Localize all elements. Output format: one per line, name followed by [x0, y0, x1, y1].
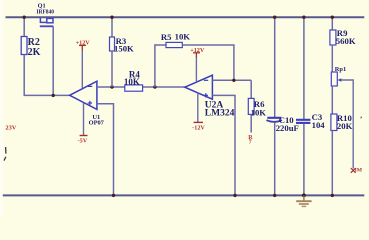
junction R10 ground rail — [331, 194, 334, 197]
junction C3 ground rail — [302, 194, 306, 198]
svg-text:220uF: 220uF — [276, 123, 299, 133]
wire wiper — [341, 80, 353, 169]
junction C3 top rail — [302, 16, 305, 19]
wire U1 inverting row to U2A output — [97, 86, 185, 88]
resistor R9 — [331, 17, 333, 30]
resistor R5 with loop wires — [155, 45, 166, 87]
junction R9 top rail — [331, 16, 334, 19]
wire U2A inverting stub to R6 corner — [212, 79, 251, 81]
wire U2A non-inverting to ground rail — [212, 95, 235, 195]
power +12V (U1) — [76, 39, 91, 50]
wire U1 output row — [24, 94, 70, 96]
ground symbol — [296, 195, 311, 206]
wire U1 V+ from +12V — [81, 50, 83, 88]
wire top rail — [6, 16, 365, 18]
power +12V (U2A) — [190, 47, 205, 58]
junction C10 top rail — [273, 16, 276, 19]
wire U2A V- down — [197, 93, 199, 123]
svg-text:LM324: LM324 — [205, 108, 235, 118]
junction R3 top rail — [110, 16, 113, 19]
resistor R4 — [125, 85, 143, 91]
svg-text:-12V: -12V — [192, 124, 205, 131]
junction feedback node — [232, 79, 235, 82]
svg-text:,: , — [360, 111, 362, 119]
svg-text:IRF840: IRF840 — [36, 8, 54, 15]
resistor R3 — [111, 17, 113, 37]
svg-text:OP07: OP07 — [89, 120, 105, 127]
wire bottom ground rail — [3, 194, 365, 196]
power -12V — [192, 122, 205, 131]
op-amp U2A LM324 — [185, 75, 213, 99]
svg-text:7: 7 — [249, 140, 252, 146]
capacitor C10 220uF — [274, 17, 276, 117]
svg-text:150K: 150K — [114, 44, 134, 54]
svg-text:2K: 2K — [28, 47, 41, 58]
junction C10 ground rail — [273, 194, 276, 197]
svg-text:560K: 560K — [336, 36, 356, 46]
junction R3/inverting row — [110, 85, 113, 88]
resistor R6 — [250, 80, 252, 98]
wire Q1 gate down to U1 output node — [52, 26, 54, 95]
junction gate/output — [52, 94, 55, 97]
wire R9 to Rp1 — [331, 45, 333, 72]
junction R2 top rail — [23, 16, 26, 19]
transistor Q1 IRF840 — [40, 18, 54, 27]
power -5V — [78, 136, 88, 145]
net label (red) below R6 — [248, 135, 253, 146]
wiper arrow — [338, 78, 342, 82]
wire U1 non-inverting to ground rail — [97, 104, 114, 196]
wire U2A V+ from +12V — [195, 57, 197, 82]
svg-text:23V: 23V — [5, 125, 16, 132]
svg-text:IM: IM — [355, 168, 363, 174]
svg-text:10K: 10K — [251, 108, 267, 118]
stray mark left comma — [4, 157, 6, 161]
junction R5/inverting row — [153, 85, 156, 88]
capacitor C3 104 — [303, 17, 305, 119]
svg-text:-5V: -5V — [78, 138, 88, 145]
svg-text:104: 104 — [312, 120, 326, 130]
potentiometer Rp1 — [331, 72, 337, 86]
junction U2A+ ground rail — [233, 194, 236, 197]
svg-text:10K: 10K — [124, 77, 140, 87]
wire Rp1 to R10 — [331, 86, 333, 114]
stray mark left tick — [5, 147, 7, 154]
resistor R10 — [331, 114, 337, 131]
junction U1+ ground rail — [112, 194, 115, 197]
svg-text:10K: 10K — [175, 31, 191, 41]
svg-text:R5: R5 — [161, 32, 172, 42]
svg-text:20K: 20K — [337, 121, 353, 131]
op-amp U1 OP07 — [70, 81, 97, 109]
svg-text:Rp1: Rp1 — [335, 66, 346, 73]
no-ERC marker (red X) — [351, 168, 356, 173]
resistor R2 — [23, 17, 25, 36]
wire U1 V- down — [83, 103, 85, 135]
